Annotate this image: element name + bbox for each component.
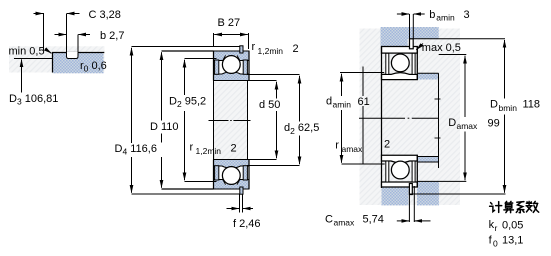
svg-text:C 3,28: C 3,28 xyxy=(89,9,121,21)
shaft face tick xyxy=(435,98,441,100)
svg-text:d: d xyxy=(326,96,332,108)
shaft ghost left edge xyxy=(213,81,215,160)
计 xyxy=(490,202,502,213)
r 1,2min top label xyxy=(252,41,299,56)
svg-text:2: 2 xyxy=(384,139,390,151)
assembly ghost hatch xyxy=(360,29,461,206)
Damax dimension xyxy=(448,56,499,181)
svg-text:D2 95,2: D2 95,2 xyxy=(169,95,206,109)
lower housing right block (Da shoulder) xyxy=(417,181,439,205)
Dbmin dimension xyxy=(490,40,540,193)
top section: inner ring with raceway bump xyxy=(214,72,250,81)
svg-text:2: 2 xyxy=(231,142,237,154)
svg-text:bmin: bmin xyxy=(499,103,518,113)
lower housing left block xyxy=(382,188,409,206)
svg-text:1,2min: 1,2min xyxy=(258,46,284,56)
shaft ghost xyxy=(214,82,247,160)
svg-text:amax: amax xyxy=(457,121,479,131)
top section: left seal xyxy=(215,60,219,74)
C dimension xyxy=(34,9,121,51)
svg-text:5,74: 5,74 xyxy=(363,214,384,226)
svg-text:0: 0 xyxy=(493,238,498,248)
upper bearing: inner ring xyxy=(382,73,418,80)
svg-text:118: 118 xyxy=(523,99,541,111)
svg-text:D: D xyxy=(448,117,456,129)
svg-text:r: r xyxy=(495,223,498,233)
housing ghost hatch xyxy=(9,46,105,72)
D2 level lines xyxy=(185,58,217,60)
d dimension line xyxy=(259,82,280,159)
bottom snap ring xyxy=(240,187,243,194)
D dimension line xyxy=(150,52,179,188)
ramax label xyxy=(335,139,390,155)
svg-text:0,05: 0,05 xyxy=(502,219,523,231)
upper bearing: left shield xyxy=(386,53,389,74)
算 xyxy=(504,201,514,212)
bottom section: left seal xyxy=(215,166,219,180)
svg-text:r: r xyxy=(190,141,194,153)
d2 level lines xyxy=(247,74,300,76)
upper snap ring xyxy=(410,39,414,49)
lower shaft spacer block xyxy=(418,157,439,163)
upper housing xyxy=(381,27,439,47)
groove wall extension lines xyxy=(66,14,68,53)
svg-text:C: C xyxy=(325,214,333,226)
svg-text:13,1: 13,1 xyxy=(502,235,523,247)
svg-text:f 2,46: f 2,46 xyxy=(233,218,261,230)
top snap ring xyxy=(240,46,243,53)
svg-text:99: 99 xyxy=(488,118,500,130)
f dimension xyxy=(227,195,261,231)
center line (dash-dot) xyxy=(209,120,251,122)
Camax dimension xyxy=(325,186,431,227)
bottom section: outer ring race cut xyxy=(223,179,240,185)
svg-text:d2 62,5: d2 62,5 xyxy=(284,122,319,136)
upper shaft spacer block xyxy=(418,73,439,79)
lower bearing: inner ring xyxy=(382,155,418,163)
damin dimension xyxy=(326,67,370,165)
svg-text:D4 116,6: D4 116,6 xyxy=(115,143,157,157)
min 0,5 label + leader xyxy=(9,45,52,57)
svg-text:r: r xyxy=(252,41,256,53)
svg-text:61: 61 xyxy=(358,96,370,108)
upper bearing: right shield xyxy=(412,53,415,74)
top section: faces xyxy=(213,51,215,81)
svg-text:3: 3 xyxy=(464,9,470,21)
svg-text:B 27: B 27 xyxy=(218,17,241,29)
top section: right seal xyxy=(243,60,247,74)
upper bearing: faces xyxy=(381,47,383,189)
bottom section: faces xyxy=(213,160,215,190)
bottom section: inner ring with raceway bump xyxy=(214,160,250,169)
svg-text:r: r xyxy=(335,139,339,151)
d2 dimension line xyxy=(284,76,319,165)
svg-text:amax: amax xyxy=(342,144,364,154)
r 1,2min bottom label + leader xyxy=(190,141,237,159)
upper bearing: ball xyxy=(391,54,409,72)
svg-text:D3 106,81: D3 106,81 xyxy=(9,93,58,107)
bottom section: ball xyxy=(222,167,240,185)
b dimension xyxy=(55,30,125,42)
D3 dimension arrow xyxy=(9,59,58,106)
svg-text:2: 2 xyxy=(293,43,299,55)
max 0,5 label + leader xyxy=(416,42,461,54)
系 xyxy=(516,202,524,213)
bottom section: right seal xyxy=(243,166,247,180)
top section: ball xyxy=(222,56,240,74)
Da level lines xyxy=(439,54,467,56)
shaft ghost right edge xyxy=(247,81,249,160)
b_amin dimension xyxy=(397,9,470,39)
bottom section: outer ring xyxy=(214,180,250,190)
svg-text:amin: amin xyxy=(333,100,352,110)
top section: outer ring xyxy=(214,51,250,61)
snap ring groove xyxy=(67,52,79,59)
svg-text:b 2,7: b 2,7 xyxy=(100,30,124,42)
D4 dimension line xyxy=(115,48,157,193)
da level lines xyxy=(340,72,384,74)
svg-text:amin: amin xyxy=(436,13,455,23)
D level lines xyxy=(162,50,214,52)
D3 groove bottom level line xyxy=(14,58,53,60)
B dimension xyxy=(214,17,249,49)
lower bearing: ball xyxy=(391,161,409,179)
outer ring section block xyxy=(52,52,104,73)
svg-text:min 0,5: min 0,5 xyxy=(9,45,45,57)
lower bearing: right face xyxy=(416,155,418,187)
d level lines xyxy=(247,80,276,82)
svg-text:1,2min: 1,2min xyxy=(196,146,222,156)
数 xyxy=(526,201,539,212)
D2 dimension line xyxy=(169,60,206,181)
svg-text:D 110: D 110 xyxy=(150,121,179,133)
lower bearing: outer ring xyxy=(382,182,418,187)
lower bearing: left shield xyxy=(386,161,389,182)
f_0 13,1 xyxy=(489,234,524,248)
center line xyxy=(359,117,439,119)
svg-text:d 50: d 50 xyxy=(259,99,280,111)
计算系数 (calculation factors) drawn as paths xyxy=(490,201,539,212)
svg-text:D: D xyxy=(490,99,498,111)
svg-text:b: b xyxy=(429,9,435,21)
Db level lines xyxy=(413,38,505,40)
lower bearing: right shield xyxy=(412,161,415,182)
k_r 0,05 xyxy=(489,219,524,233)
upper bearing: outer ring xyxy=(382,47,418,54)
svg-text:max 0,5: max 0,5 xyxy=(422,42,461,54)
D4 level lines xyxy=(132,46,240,48)
lower snap ring xyxy=(409,184,412,195)
shaft face line xyxy=(438,73,440,168)
svg-text:amax: amax xyxy=(334,217,356,227)
